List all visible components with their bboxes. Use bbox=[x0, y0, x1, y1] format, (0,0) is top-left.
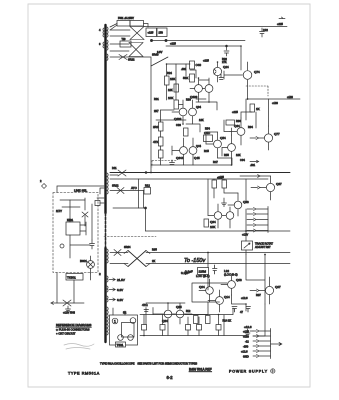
wire Q703 bbox=[221, 274, 232, 295]
wire rail y231 bbox=[146, 230, 291, 232]
resistor R704 bbox=[206, 316, 211, 324]
wire Q654 bbox=[206, 132, 218, 158]
wire diag upper block bbox=[151, 57, 168, 66]
svg-text:R45: R45 bbox=[204, 149, 209, 153]
svg-text:+225: +225 bbox=[203, 59, 209, 63]
transformer heater winding W9 bbox=[107, 307, 108, 335]
svg-text:-150: -150 bbox=[243, 345, 249, 349]
wire Q684 Q685 bbox=[153, 303, 192, 336]
node dot A bbox=[150, 39, 152, 41]
connector arrow P5 bbox=[250, 289, 259, 292]
svg-text:2K7: 2K7 bbox=[154, 109, 159, 113]
wire below enclosure bbox=[57, 273, 91, 304]
lamp B604 bbox=[118, 335, 124, 341]
resistor R626 bbox=[190, 74, 195, 82]
svg-text:2R0: 2R0 bbox=[153, 125, 159, 129]
svg-text:+125: +125 bbox=[243, 330, 249, 334]
wire Q664 bbox=[230, 118, 241, 145]
diode D603 bbox=[119, 55, 127, 60]
svg-text:R07: R07 bbox=[256, 293, 261, 297]
resistor R628 bbox=[184, 128, 189, 136]
resistor R671 bbox=[250, 104, 255, 112]
wire graticule top bbox=[113, 308, 125, 315]
svg-text:C40: C40 bbox=[196, 63, 202, 67]
resistor R685 bbox=[142, 325, 147, 331]
transformer secondary winding W2 bbox=[107, 40, 108, 50]
svg-text:REFERENCE DIAGRAMS: REFERENCE DIAGRAMS bbox=[56, 323, 91, 327]
capacitor C602 box bbox=[157, 28, 167, 37]
wire pair3 bbox=[172, 138, 193, 165]
svg-text:R47: R47 bbox=[213, 160, 218, 164]
svg-text:18K: 18K bbox=[170, 77, 175, 81]
connector arrow P4 bbox=[257, 160, 259, 162]
svg-text:B&W 561A REF: B&W 561A REF bbox=[189, 368, 212, 372]
diode D641 bbox=[114, 250, 121, 256]
wire y176 seg bbox=[240, 175, 271, 177]
wire Q674 bbox=[224, 62, 248, 99]
transistor Q687 bbox=[266, 183, 274, 191]
transformer secondary winding W5 bbox=[107, 249, 108, 263]
svg-text:47Ω: 47Ω bbox=[142, 303, 148, 307]
svg-text:27K: 27K bbox=[222, 60, 227, 64]
wire rail y99 bbox=[248, 98, 301, 100]
connector J1 bracket bbox=[267, 207, 269, 233]
wire Q704 bbox=[199, 279, 210, 302]
page bottom edge bbox=[28, 386, 310, 388]
svg-text:0.1μF: 0.1μF bbox=[181, 271, 189, 275]
transistor Q623 bbox=[205, 85, 213, 93]
transistor Q695 bbox=[226, 212, 234, 220]
svg-text:◇ PLUG-IN CONNECTORS: ◇ PLUG-IN CONNECTORS bbox=[56, 328, 90, 332]
transformer secondary winding W3 bbox=[106, 54, 109, 60]
wire rail y335 bbox=[140, 335, 247, 337]
svg-text:R65: R65 bbox=[152, 248, 157, 252]
connector J2 bracket bbox=[270, 329, 272, 359]
fuse F601 box bbox=[117, 21, 130, 27]
connector J2 pin 6 bbox=[253, 355, 271, 358]
wire vertical x241 bbox=[240, 46, 242, 70]
wire rail y263 bbox=[146, 263, 290, 265]
wire grid upper block bbox=[161, 64, 253, 165]
terminal box left of bar bbox=[95, 201, 100, 206]
wire x246 vert bbox=[245, 209, 247, 231]
resistor R612 box bbox=[144, 188, 151, 195]
svg-text:150: 150 bbox=[159, 31, 164, 35]
svg-text:T601: T601 bbox=[117, 343, 124, 347]
transistor Q703 bbox=[228, 281, 236, 289]
svg-text:C4C: C4C bbox=[204, 131, 211, 135]
svg-text:+12.6: +12.6 bbox=[241, 350, 248, 354]
transistor Q655 bbox=[228, 144, 236, 152]
capacitor C601 box bbox=[146, 28, 157, 37]
wire enclosure top bbox=[57, 186, 104, 193]
transistor Q674 bbox=[243, 71, 252, 80]
transistor Q624 bbox=[195, 85, 203, 93]
wire pair2 bbox=[172, 100, 193, 124]
page top edge bbox=[28, 3, 310, 5]
svg-text:17K: 17K bbox=[217, 176, 222, 180]
wire y161 seg bbox=[250, 161, 258, 163]
node dot C bbox=[226, 45, 228, 47]
svg-text:R33: R33 bbox=[186, 98, 191, 102]
page right edge bbox=[309, 4, 311, 387]
resistor R627 bbox=[174, 84, 179, 92]
dashed box corner mid bbox=[152, 161, 176, 168]
svg-text:C22: C22 bbox=[263, 28, 268, 32]
svg-text:TRACE ROTAT: TRACE ROTAT bbox=[255, 242, 273, 246]
wire w4 top to rail bbox=[110, 174, 118, 176]
svg-text:56K: 56K bbox=[183, 76, 188, 80]
resistor R624 bbox=[174, 100, 179, 109]
resistor R622 bbox=[159, 150, 164, 158]
connector J2 pin 2 bbox=[253, 335, 271, 338]
svg-text:6.3V: 6.3V bbox=[117, 298, 123, 302]
svg-text:SR12: SR12 bbox=[112, 184, 119, 188]
dashed line y236 bbox=[104, 236, 156, 238]
svg-text:1K: 1K bbox=[256, 107, 260, 111]
mid rail 1 bbox=[110, 172, 290, 174]
svg-text:C33: C33 bbox=[176, 123, 181, 127]
svg-text:TYPE 561A OSCILLOSCOPE SEE: TYPE 561A OSCILLOSCOPE SEE PARTS LIST FO… bbox=[100, 362, 197, 366]
caption circled plus bbox=[271, 369, 275, 373]
winding tap arrow TP1 bbox=[109, 278, 115, 281]
transformer heater winding W6 bbox=[107, 276, 108, 282]
svg-text:+12V: +12V bbox=[242, 233, 248, 237]
diamond marker bbox=[42, 184, 47, 189]
resistor R625 box bbox=[190, 61, 195, 69]
transistor Q677 bbox=[264, 134, 272, 142]
svg-text:LINE SEL: LINE SEL bbox=[74, 189, 88, 193]
svg-text:GND: GND bbox=[243, 355, 249, 359]
svg-text:.001: .001 bbox=[181, 67, 187, 71]
svg-text:+100: +100 bbox=[272, 101, 278, 105]
relay contact marks bbox=[80, 222, 86, 235]
svg-text:+225: +225 bbox=[170, 42, 176, 46]
wire primary to fuses bbox=[110, 24, 148, 31]
wire to connector verts bbox=[246, 304, 265, 336]
capacitor C606 bbox=[260, 28, 265, 37]
svg-text:Q44: Q44 bbox=[196, 144, 201, 148]
winding tap arrow TP3 bbox=[109, 298, 115, 301]
svg-text:125M: 125M bbox=[199, 270, 207, 274]
capacitor C704 bbox=[246, 307, 251, 313]
bridge rectifier SR602 bbox=[110, 43, 143, 57]
svg-text:D11: D11 bbox=[112, 166, 117, 170]
fan motor B601 bbox=[87, 261, 95, 269]
connector arrow P1 bbox=[250, 137, 259, 140]
wire Q693 bbox=[228, 193, 238, 216]
bridge rectifier SR604 bbox=[124, 251, 150, 267]
lamp B602 bbox=[112, 318, 118, 324]
lamp B603 bbox=[130, 318, 136, 324]
svg-text:R24: R24 bbox=[167, 71, 172, 75]
svg-text:512: 512 bbox=[186, 309, 191, 313]
svg-text:Q633: Q633 bbox=[174, 117, 182, 121]
svg-text:K601: K601 bbox=[67, 218, 74, 222]
wire winding W3 to divider bbox=[110, 57, 151, 165]
wire x166 bbox=[166, 64, 168, 100]
pot arrow bbox=[244, 243, 250, 248]
transformer secondary winding W1 bbox=[107, 27, 108, 37]
svg-text:+12.6: +12.6 bbox=[241, 296, 248, 300]
wire y190 row bbox=[110, 190, 144, 192]
wire fan bbox=[90, 256, 92, 273]
svg-text:+12V FAN: +12V FAN bbox=[63, 311, 75, 315]
small box T602 bbox=[120, 41, 131, 47]
transformer heater winding W7 bbox=[107, 286, 108, 292]
wire Q655 bbox=[222, 135, 232, 160]
diode D651 bbox=[82, 212, 88, 217]
svg-text:SR22: SR22 bbox=[128, 58, 135, 62]
wire pair1 bbox=[190, 78, 209, 102]
svg-text:ATC: ATC bbox=[131, 186, 138, 190]
wire upper block extras bbox=[151, 64, 232, 173]
wire y208 seg bbox=[113, 207, 146, 209]
resistor R684 bbox=[186, 325, 191, 331]
svg-text:+225: +225 bbox=[232, 110, 238, 114]
wire SR604 in bottom bbox=[110, 263, 128, 265]
transistor Q633 bbox=[179, 108, 187, 116]
svg-text:Q644: Q644 bbox=[176, 156, 184, 160]
transistor Q645 bbox=[189, 147, 197, 155]
svg-text:Q87: Q87 bbox=[276, 182, 282, 186]
resistor R687 bbox=[197, 325, 202, 331]
svg-text:10K: 10K bbox=[210, 225, 215, 229]
svg-text:+225: +225 bbox=[148, 31, 154, 35]
wire Q694 Q695 bbox=[208, 204, 230, 228]
svg-text:2K: 2K bbox=[152, 259, 155, 263]
svg-text:117V: 117V bbox=[56, 209, 62, 213]
transistor Q634 bbox=[189, 108, 197, 116]
svg-text:.001: .001 bbox=[250, 163, 256, 167]
wire x268 vert bbox=[268, 99, 270, 126]
fan blades bbox=[88, 262, 93, 267]
svg-text:R64: R64 bbox=[248, 125, 253, 129]
wire rail third bbox=[166, 45, 241, 47]
resistor R686 bbox=[160, 325, 165, 331]
Q614 leads bbox=[214, 62, 218, 82]
svg-text:Q14: Q14 bbox=[224, 295, 230, 299]
svg-text:Q85: Q85 bbox=[176, 305, 182, 309]
wire x145 down to y231 bbox=[145, 208, 147, 231]
transistor Q654 bbox=[214, 140, 222, 148]
svg-text:6.3V: 6.3V bbox=[157, 50, 163, 54]
wire y303 top seg bbox=[146, 302, 185, 304]
svg-text:B601: B601 bbox=[80, 259, 87, 263]
transistor Q694 bbox=[214, 212, 222, 220]
svg-text:10K: 10K bbox=[236, 153, 241, 157]
switch SW601 bbox=[60, 244, 64, 248]
wire Q687 bbox=[260, 176, 271, 200]
transistor Q614 bbox=[213, 67, 221, 75]
ground G2 bbox=[66, 306, 71, 312]
cap C691 bbox=[144, 310, 149, 312]
dashed box segment upper right bbox=[246, 86, 268, 96]
svg-text:TK601: TK601 bbox=[67, 276, 76, 280]
relay K601 box bbox=[66, 222, 80, 235]
svg-text:R31: R31 bbox=[154, 97, 159, 101]
wire SR604 in top bbox=[110, 252, 128, 254]
svg-text:10K: 10K bbox=[168, 88, 173, 92]
arrow left bottom bbox=[51, 302, 54, 305]
transformer primary marks bbox=[103, 28, 104, 48]
resistor R656 bbox=[226, 120, 235, 125]
node dot B bbox=[165, 39, 167, 41]
diode D612 bbox=[117, 188, 124, 194]
svg-text:+12.6: +12.6 bbox=[244, 325, 252, 329]
wire rail second bbox=[152, 40, 246, 42]
svg-text:R66: R66 bbox=[236, 119, 241, 123]
svg-text:Q24: Q24 bbox=[223, 65, 229, 69]
ground G1 bbox=[222, 198, 227, 206]
connector J2 output arrow bbox=[271, 343, 282, 346]
winding tap arrow TP2 bbox=[109, 288, 115, 291]
wire enclosure inner horiz bbox=[60, 200, 90, 245]
svg-text:(LOC B-2): (LOC B-2) bbox=[224, 273, 238, 277]
bridge rectifier SR601 bbox=[110, 27, 144, 40]
resistor R621 bbox=[159, 137, 164, 146]
transistor Q664 bbox=[237, 128, 245, 136]
svg-text:R12: R12 bbox=[145, 184, 150, 188]
svg-text:Q84: Q84 bbox=[162, 319, 168, 323]
terminal marks left of bar bbox=[97, 188, 104, 203]
transistor Q685 bbox=[176, 310, 184, 318]
svg-text:R55: R55 bbox=[224, 153, 229, 157]
capacitor C605 bbox=[224, 46, 229, 56]
node dot D bbox=[145, 172, 147, 174]
resistor R688 bbox=[216, 325, 221, 331]
svg-text:Q04: Q04 bbox=[199, 285, 205, 289]
svg-text:18K: 18K bbox=[199, 118, 204, 122]
thermal cutout TK601 box bbox=[66, 274, 83, 281]
wire Q677 bbox=[258, 126, 269, 150]
lamp B605 bbox=[128, 335, 134, 341]
graticule inner box bbox=[122, 323, 135, 338]
resistor R641 box bbox=[198, 268, 209, 275]
svg-text:Q77: Q77 bbox=[274, 132, 280, 136]
resistor R692 bbox=[212, 180, 217, 188]
svg-text:Q07: Q07 bbox=[275, 285, 281, 289]
transformer T601 core bar bbox=[104, 25, 106, 213]
transistor Q684 bbox=[164, 310, 172, 318]
connector strip J1 pins bbox=[247, 208, 268, 233]
svg-text:TYPE RM561A: TYPE RM561A bbox=[68, 372, 100, 376]
capacitor C703 bbox=[232, 307, 237, 313]
svg-text:47K: 47K bbox=[153, 140, 158, 144]
transistor Q707 bbox=[265, 286, 273, 294]
wire bottom right block bbox=[185, 255, 265, 332]
capacitor C641 bbox=[213, 265, 218, 274]
svg-text:LOC (B-1): LOC (B-1) bbox=[196, 274, 210, 278]
svg-text:Q54: Q54 bbox=[220, 136, 226, 140]
wire mid block verts bbox=[208, 179, 246, 216]
svg-text:Q74: Q74 bbox=[254, 70, 260, 74]
svg-text:Q45: Q45 bbox=[194, 156, 200, 160]
svg-text:Q64: Q64 bbox=[234, 124, 240, 128]
wire Q707 bbox=[259, 277, 270, 304]
wire +225V rail top bbox=[144, 26, 287, 28]
svg-text:SR64: SR64 bbox=[124, 245, 131, 249]
connector J2 pin 3 bbox=[253, 340, 271, 343]
capacitor C674 bbox=[219, 74, 224, 80]
graticule box bbox=[110, 315, 138, 345]
svg-text:C64: C64 bbox=[240, 158, 245, 162]
connector J2 pin 4 bbox=[253, 345, 271, 348]
svg-text:6.3V: 6.3V bbox=[117, 288, 123, 292]
connector J2 pin 5 bbox=[253, 350, 271, 353]
resistor R623 bbox=[165, 76, 170, 85]
svg-text:6-2: 6-2 bbox=[167, 375, 174, 380]
svg-text:+225: +225 bbox=[277, 22, 283, 26]
page left edge bbox=[27, 4, 29, 387]
transformer heater winding W8 bbox=[107, 296, 108, 302]
svg-text:R54: R54 bbox=[205, 127, 210, 131]
connector arrow P3 bbox=[258, 175, 261, 178]
svg-text:To -150v: To -150v bbox=[184, 258, 206, 264]
wire resistor row drops bbox=[144, 308, 233, 336]
label box B601 bbox=[116, 342, 126, 347]
wire x256 right block bbox=[255, 112, 257, 128]
svg-text:F601 .8A 250V: F601 .8A 250V bbox=[118, 17, 134, 20]
wire x146 x153 verts bbox=[146, 308, 153, 325]
wire y314 row bbox=[140, 314, 233, 316]
capacitor C644 bbox=[170, 160, 175, 165]
pot R697 box bbox=[242, 241, 253, 250]
junction dots upper block bbox=[143, 45, 266, 336]
svg-text:○ CRT CIRCUIT: ○ CRT CIRCUIT bbox=[56, 332, 76, 336]
svg-text:+100: +100 bbox=[243, 335, 249, 339]
wire Q714 bbox=[208, 290, 220, 312]
diode D611 bbox=[118, 170, 126, 176]
diode D652 bbox=[63, 300, 71, 306]
resistor R703 bbox=[194, 316, 199, 324]
ground G3 bbox=[245, 329, 250, 336]
wire bottom row left bbox=[51, 302, 84, 304]
svg-text:POWER SUPPLY: POWER SUPPLY bbox=[229, 370, 268, 374]
mid rail 2 bbox=[110, 178, 268, 180]
transistor Q644 bbox=[180, 147, 188, 155]
svg-text:ADJUST R97: ADJUST R97 bbox=[255, 245, 271, 249]
svg-text:Q03: Q03 bbox=[236, 278, 242, 282]
pencil note bbox=[64, 344, 94, 350]
svg-text:Q623: Q623 bbox=[190, 95, 198, 99]
svg-text:1: 1 bbox=[114, 320, 116, 324]
resistor R694 bbox=[204, 219, 209, 227]
wire enclosure inner verts bbox=[70, 198, 92, 258]
wire pot to rails bbox=[245, 231, 247, 255]
transistor Q714 bbox=[216, 297, 224, 305]
svg-text:-12: -12 bbox=[245, 340, 249, 344]
transformer secondary winding W4 bbox=[107, 173, 108, 194]
wire x160 vert bbox=[160, 110, 162, 165]
transistor Q704 bbox=[206, 287, 214, 295]
svg-text:+100: +100 bbox=[287, 95, 293, 99]
node dot E bbox=[145, 207, 147, 209]
svg-text:21.5V: 21.5V bbox=[117, 278, 125, 282]
wire x138 x143 verts bbox=[139, 179, 144, 208]
dashed enclosure box bbox=[53, 193, 98, 273]
fuse F602 box bbox=[130, 21, 144, 27]
connector arrow P2 bbox=[251, 186, 260, 189]
capacitor C651 bbox=[90, 240, 95, 249]
resistor R654 box bbox=[204, 135, 213, 142]
svg-text:Q34: Q34 bbox=[196, 105, 201, 109]
resistor R620 bbox=[159, 122, 164, 131]
connector J2 pin 1 bbox=[253, 330, 271, 333]
svg-text:10K: 10K bbox=[168, 96, 173, 100]
svg-text:Q94: Q94 bbox=[210, 220, 216, 224]
transistor Q693 bbox=[234, 201, 242, 209]
